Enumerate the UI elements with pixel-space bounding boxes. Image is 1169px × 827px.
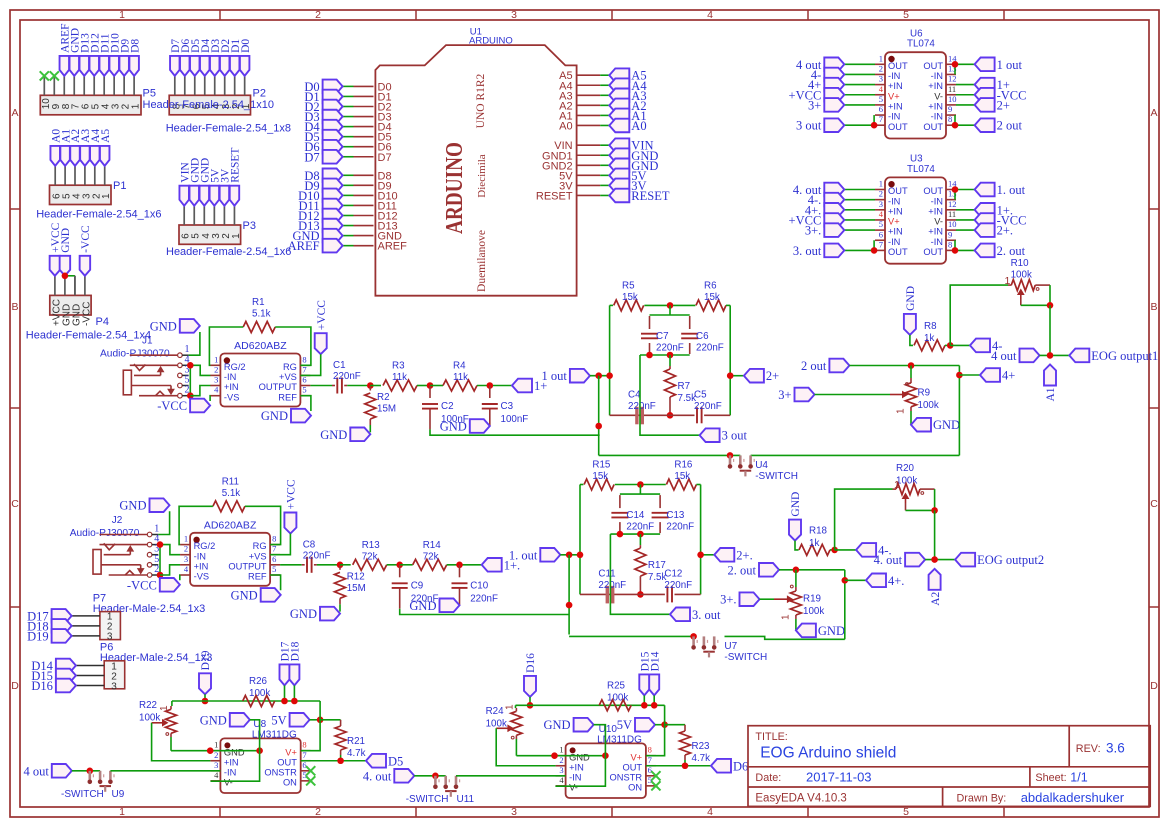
- net flag +VCC (AD620 +VS): [315, 333, 327, 354]
- wire MFB left vertical (R15): [579, 485, 581, 595]
- in-amp AD620ABZ (J1 channel): [220, 354, 300, 407]
- wire jack pin4-pin2 vertical: [159, 545, 161, 575]
- junction node after C1: [367, 382, 374, 389]
- net flag 3 out (U6 left): [844, 124, 875, 126]
- svg-text:OUTPUT: OUTPUT: [259, 382, 298, 392]
- no-connect X U10 ONSTR: [651, 771, 660, 780]
- svg-text:GND: GND: [818, 624, 845, 638]
- svg-text:2017-11-03: 2017-11-03: [806, 770, 872, 785]
- wire node to 4-. flag: [835, 549, 857, 551]
- pin 4 of AD620 a: [210, 395, 220, 397]
- svg-text:GND: GND: [150, 319, 177, 333]
- no-connect X pin9: [50, 71, 59, 80]
- capacitor C12 220nF: [666, 586, 668, 602]
- pin 4 of U10: [556, 785, 566, 787]
- resistor R14 72k: [400, 564, 413, 566]
- net flag VIN (P3): [179, 186, 189, 206]
- svg-text:OUT: OUT: [888, 247, 908, 257]
- wire R12 to GND: [339, 604, 341, 611]
- pin 6 of U8: [301, 770, 311, 772]
- wire C2 bottom rail: [430, 429, 600, 435]
- wire input to MFB: [590, 375, 610, 377]
- svg-text:LM311DG: LM311DG: [252, 730, 297, 741]
- pin VIN of U1 with net flag VIN: [577, 144, 601, 146]
- junction D14: [651, 702, 658, 709]
- net flag +VCC (U3 left): [844, 219, 875, 221]
- junction 4+. tap: [842, 577, 849, 584]
- net flag -VCC (P4 pin4): [80, 256, 91, 276]
- wire cap top bar: [639, 485, 641, 495]
- svg-text:7: 7: [879, 239, 883, 249]
- svg-text:A2: A2: [930, 591, 942, 605]
- junction R21/OUT: [337, 757, 344, 764]
- wire R24 wiper to +IN: [496, 728, 555, 765]
- svg-text:V-: V-: [934, 217, 943, 227]
- svg-text:R11: R11: [222, 476, 239, 487]
- capacitor C7 220nF: [649, 316, 651, 329]
- resistor R23 4.7k: [684, 725, 686, 731]
- pin 4 of J1: [178, 363, 183, 368]
- svg-text:A0: A0: [631, 119, 646, 133]
- svg-text:2+: 2+: [997, 98, 1010, 112]
- junction U3 pin14: [952, 186, 959, 193]
- pin 13 of U3: [946, 199, 956, 201]
- pin 1 of AD620 a: [210, 364, 220, 366]
- wire U3 pin9-pin8 loop: [954, 240, 956, 250]
- wire to 4+ flag: [959, 374, 980, 376]
- svg-text:D0: D0: [240, 39, 252, 53]
- junction jack pin2: [157, 572, 164, 579]
- capacitor C5 220nF: [696, 407, 698, 423]
- capacitor C13 220nF: [659, 495, 661, 508]
- net flag 3+. (U3 left): [844, 229, 875, 231]
- svg-text:+VCC: +VCC: [286, 479, 298, 509]
- svg-text:ONSTR: ONSTR: [610, 772, 643, 782]
- net flag 2. out: [759, 563, 779, 577]
- net flag 4-: [970, 339, 990, 353]
- svg-text:+IN: +IN: [194, 561, 209, 571]
- svg-text:OUT: OUT: [888, 61, 908, 71]
- svg-text:V+: V+: [888, 91, 900, 101]
- svg-text:-IN: -IN: [931, 196, 943, 206]
- wire -VS to -VCC: [179, 575, 181, 580]
- svg-text:15k: 15k: [704, 292, 720, 303]
- svg-text:4 out: 4 out: [23, 764, 49, 778]
- wire cap bottom bar: [640, 354, 690, 356]
- wire jack pin2 to +IN: [160, 565, 180, 575]
- net flag D15: [639, 674, 649, 695]
- wire 5V to R21: [320, 719, 341, 721]
- pin 2 of AD620 b: [180, 554, 190, 556]
- pin 6 of AD620 a: [300, 385, 310, 387]
- capacitor C3 100nF: [489, 386, 491, 399]
- pin 3 of U6: [875, 84, 885, 86]
- junction R19 top: [793, 567, 800, 574]
- net flag A2 (P1): [70, 146, 80, 166]
- pin 7 of U8: [301, 760, 311, 762]
- svg-text:5: 5: [879, 219, 883, 229]
- junction R8/R10 node: [947, 342, 954, 349]
- svg-text:-SWITCH: -SWITCH: [724, 652, 767, 663]
- svg-text:TL074: TL074: [907, 164, 935, 175]
- net flag 3. out (U3 left): [844, 249, 875, 251]
- svg-text:1: 1: [184, 534, 188, 544]
- svg-text:+IN: +IN: [888, 206, 903, 216]
- svg-text:5: 5: [879, 94, 883, 104]
- wire D16 to rail: [529, 697, 531, 705]
- net flag GND (R8): [904, 314, 916, 335]
- svg-text:GND: GND: [409, 599, 436, 613]
- junction D16: [527, 702, 534, 709]
- pin 5 of U10: [646, 785, 656, 787]
- wire MFB right vertical: [726, 304, 730, 306]
- svg-text:Header-Female-2.54_1x8: Header-Female-2.54_1x8: [166, 123, 291, 135]
- svg-text:2: 2: [315, 9, 321, 21]
- junction U3 pin7: [871, 247, 878, 254]
- capacitor C6 220nF: [689, 316, 691, 329]
- connector P1 Header-Female-2.54_1x6: [50, 185, 112, 204]
- wire rail down to V+ (U10): [646, 705, 665, 755]
- svg-text:Audio-PJ30070: Audio-PJ30070: [100, 349, 170, 360]
- net flag 4+: [980, 368, 1000, 382]
- wire GND flag down through U10: [555, 725, 605, 786]
- pin 3 of AD620 b: [180, 564, 190, 566]
- resistor R17 7.5k: [639, 534, 641, 545]
- wire R11 left leg to pin1: [179, 506, 213, 544]
- net flag 4 out (U9 input): [52, 764, 72, 778]
- svg-text:A: A: [1150, 107, 1157, 119]
- wire C8 to node: [317, 564, 340, 566]
- junction P4 GND: [62, 273, 69, 280]
- svg-text:6: 6: [879, 229, 883, 239]
- junction U3 pin8: [952, 247, 959, 254]
- svg-text:D18: D18: [290, 641, 302, 661]
- wire switch rail row B left: [599, 454, 741, 456]
- svg-text:2+.: 2+.: [997, 224, 1013, 238]
- svg-text:C12: C12: [664, 569, 682, 580]
- junction MFB bottom middle: [637, 591, 644, 598]
- svg-text:C9: C9: [411, 580, 424, 591]
- svg-text:+IN: +IN: [888, 81, 903, 91]
- svg-text:-IN: -IN: [931, 71, 943, 81]
- resistor R15 15k: [580, 484, 583, 486]
- pin 1 of U3: [875, 189, 885, 191]
- net flag 4+ (U6 left): [844, 84, 875, 86]
- svg-text:GND: GND: [60, 228, 72, 253]
- capacitor C9 220nF: [399, 565, 401, 578]
- pin 5V of U1 with net flag 5V: [577, 174, 601, 176]
- svg-text:+VCC: +VCC: [316, 300, 328, 330]
- svg-text:-IN: -IN: [931, 237, 943, 247]
- junction cap bottom middle: [667, 352, 674, 359]
- svg-text:R20: R20: [896, 463, 915, 474]
- junction MFB bottom middle: [667, 412, 674, 419]
- svg-text:R13: R13: [362, 540, 381, 551]
- wire node to 4- flag: [950, 344, 970, 346]
- pin 5 of AD620 b: [270, 574, 280, 576]
- net flag GND (P4 pin2): [60, 256, 71, 276]
- junction EOG output2 node: [931, 556, 938, 563]
- svg-text:R4: R4: [453, 361, 466, 372]
- svg-text:Header-Female-2.54_1x10: Header-Female-2.54_1x10: [143, 99, 274, 111]
- resistor R7 7.5k: [669, 355, 671, 366]
- pin 7 of AD620 a: [300, 374, 310, 376]
- junction MFB top: [637, 481, 644, 488]
- svg-text:3: 3: [111, 681, 117, 692]
- wire GND jog to P4 pin3: [65, 275, 75, 277]
- net flag A0 (P1): [50, 146, 60, 166]
- svg-text:5: 5: [272, 564, 276, 574]
- net flag AREF (P5 pin 8): [60, 56, 70, 76]
- svg-text:2: 2: [184, 544, 188, 554]
- svg-text:R25: R25: [607, 681, 626, 692]
- wire R9 bottom to GND: [910, 411, 912, 425]
- svg-text:4+: 4+: [1002, 369, 1015, 383]
- pin D2 of U1 with net flag D2: [354, 106, 374, 108]
- comparator U10 LM311DG: [566, 743, 646, 798]
- svg-text:EasyEDA V4.10.3: EasyEDA V4.10.3: [755, 793, 846, 805]
- wire to 3 out flag: [640, 355, 700, 435]
- net flag 1+. (U3 right): [956, 209, 975, 211]
- wire 5V node (U10): [655, 724, 665, 726]
- net flag D6: [711, 759, 731, 773]
- svg-text:Header-Female-2.54_1x6: Header-Female-2.54_1x6: [36, 209, 161, 221]
- svg-text:4: 4: [707, 9, 713, 21]
- pin D9 of U1 with net flag D9: [354, 184, 374, 186]
- svg-text:B: B: [11, 301, 18, 313]
- pin 2 of AD620 a: [210, 374, 220, 376]
- svg-text:2. out: 2. out: [997, 244, 1026, 258]
- pin 10 of U3: [946, 229, 956, 231]
- net flag -VCC (U3 right): [956, 219, 975, 221]
- svg-text:AD620ABZ: AD620ABZ: [234, 340, 287, 352]
- junction jack pin2: [187, 392, 194, 399]
- svg-text:Header-Female-2.54_1x6: Header-Female-2.54_1x6: [166, 246, 291, 258]
- wire to 3. out flag: [610, 534, 670, 614]
- svg-text:R1: R1: [252, 297, 265, 308]
- svg-text:U4: U4: [755, 460, 768, 471]
- svg-text:3: 3: [511, 806, 517, 818]
- pin D11 of U1 with net flag D11: [354, 204, 374, 206]
- wire R8 to node: [945, 344, 950, 346]
- net flag 4+.: [866, 574, 886, 588]
- net flag 2+ (filter output): [730, 375, 744, 377]
- wire jack pin2 to +IN: [190, 386, 210, 396]
- svg-text:GND: GND: [905, 286, 917, 311]
- net flag 2 out (U6 right): [956, 124, 975, 126]
- svg-text:8: 8: [302, 740, 306, 750]
- svg-text:C10: C10: [470, 580, 489, 591]
- net flag GND (R19): [796, 624, 816, 638]
- svg-text:11: 11: [948, 209, 956, 219]
- junction GND inside (U10): [602, 752, 609, 759]
- svg-text:4 out: 4 out: [991, 349, 1017, 363]
- svg-text:R23: R23: [692, 741, 711, 752]
- svg-text:C7: C7: [656, 331, 669, 342]
- wiper arrow R22: [152, 722, 166, 724]
- svg-text:-VS: -VS: [194, 572, 210, 582]
- svg-text:4.7k: 4.7k: [347, 748, 366, 759]
- wiper arrow R24: [496, 727, 511, 729]
- svg-text:R2: R2: [377, 392, 390, 403]
- pin 2 of P6 / net flag D15: [76, 675, 104, 677]
- svg-text:D8: D8: [129, 39, 141, 53]
- junction R18/R20 node: [831, 547, 838, 554]
- svg-text:RESET: RESET: [631, 189, 670, 203]
- junction input node A: [595, 372, 602, 379]
- no-connect X U8 ON: [306, 776, 315, 785]
- net flag 3+ (R9 wiper): [795, 388, 815, 402]
- svg-text:R16: R16: [674, 460, 693, 471]
- wire switch rail row B right: [751, 454, 960, 456]
- pin A4 of U1 with net flag A4: [577, 84, 601, 86]
- svg-text:V+: V+: [888, 217, 900, 227]
- net flag 1. out (U3 right): [956, 189, 975, 191]
- wire between series resistors: [417, 385, 430, 387]
- svg-text:8: 8: [948, 114, 952, 124]
- junction D18: [291, 698, 298, 705]
- pin D10 of U1 with net flag D10: [354, 194, 374, 196]
- pin 1 of U10: [556, 755, 566, 757]
- net flag 3+ (U6 left): [844, 104, 875, 106]
- net flag GND (U10): [574, 718, 594, 732]
- capacitor C2 100nF: [429, 386, 431, 399]
- pin 1 of P6 / net flag D14: [76, 665, 104, 667]
- net flag A1 (P1): [60, 146, 70, 166]
- svg-text:U9: U9: [112, 789, 125, 800]
- svg-text:1: 1: [231, 233, 242, 239]
- net flag 4. out: [905, 553, 925, 567]
- svg-text:RESET: RESET: [230, 148, 242, 183]
- pin 3 of U10: [556, 775, 566, 777]
- svg-text:U7: U7: [724, 641, 737, 652]
- svg-text:10: 10: [948, 219, 957, 229]
- svg-text:220nF: 220nF: [666, 522, 694, 533]
- connector P5 Header-Female-2.54_1x10: [40, 95, 141, 115]
- svg-text:-VCC: -VCC: [81, 302, 92, 326]
- net flag 1+ (U6 right): [956, 84, 975, 86]
- pin D3 of U1 with net flag D3: [354, 116, 374, 118]
- svg-text:2+.: 2+.: [736, 548, 752, 562]
- wire 2. out across: [779, 569, 845, 571]
- junction D17: [281, 698, 288, 705]
- net flag 3+. (R19 wiper): [740, 592, 760, 606]
- svg-text:R21: R21: [347, 736, 365, 747]
- wire U8 OUT to D5: [301, 760, 366, 762]
- svg-text:GND: GND: [569, 752, 590, 762]
- svg-text:5: 5: [903, 9, 909, 21]
- svg-text:R22: R22: [139, 700, 157, 711]
- wire jack pin1 to GND: [158, 511, 169, 534]
- wire to 4+. flag: [845, 579, 866, 581]
- net flag GND (J1 pin1): [180, 319, 200, 333]
- wire D17 to rail: [284, 685, 286, 701]
- net flag GND (J2 pin1): [150, 498, 170, 512]
- pin 3 of AD620 a: [210, 385, 220, 387]
- svg-text:-VCC: -VCC: [80, 225, 92, 253]
- pin 2 of J2: [147, 573, 152, 578]
- svg-text:1: 1: [896, 408, 907, 414]
- junction 4+ tap: [956, 372, 963, 379]
- svg-text:TL074: TL074: [907, 39, 935, 50]
- svg-text:10: 10: [948, 94, 957, 104]
- wire node up to R10: [950, 285, 1008, 345]
- svg-text:8: 8: [948, 239, 952, 249]
- svg-text:OUT: OUT: [923, 61, 943, 71]
- svg-text:1: 1: [781, 614, 792, 620]
- pin 3 of J1: [178, 373, 183, 378]
- svg-text:D7: D7: [378, 152, 392, 164]
- pin 8 of AD620 a: [300, 364, 310, 366]
- junction U7 switch: [690, 633, 697, 640]
- wire U6 pin6-pin7 loop: [873, 115, 875, 125]
- svg-text:ARDUINO: ARDUINO: [469, 36, 513, 47]
- svg-text:OUT: OUT: [622, 762, 642, 772]
- pin 9 of U6: [946, 114, 956, 116]
- wire input down to switch rail: [568, 555, 570, 635]
- svg-text:1 out: 1 out: [997, 58, 1023, 72]
- net flag D13 (P5 pin 6): [80, 56, 90, 76]
- net flag D10 (P5 pin 3): [109, 56, 119, 76]
- svg-text:3: 3: [559, 765, 563, 775]
- net flag GND (P3): [190, 186, 200, 206]
- pin 5 of U6: [875, 104, 885, 106]
- wiper arrow R9: [890, 394, 906, 396]
- svg-text:Header-Female-2.54_1x4: Header-Female-2.54_1x4: [26, 330, 151, 342]
- svg-text:C: C: [1150, 498, 1158, 510]
- svg-text:4. out: 4. out: [363, 769, 392, 783]
- svg-text:-IN: -IN: [569, 772, 581, 782]
- svg-text:GND: GND: [933, 418, 960, 432]
- pin D8 of U1 with net flag D8: [354, 174, 374, 176]
- junction U6 pin7: [871, 122, 878, 129]
- svg-text:-VCC: -VCC: [157, 399, 187, 413]
- svg-text:220nF: 220nF: [664, 580, 692, 591]
- switch U9 -SWITCH: [89, 771, 92, 780]
- wire input to MFB: [560, 554, 580, 556]
- svg-text:R14: R14: [423, 540, 442, 551]
- pin 2 of U6: [875, 73, 885, 75]
- svg-text:3.6: 3.6: [1106, 741, 1125, 756]
- switch U7 -SWITCH: [692, 636, 695, 645]
- pin D1 of U1 with net flag D1: [354, 95, 374, 97]
- junction between series resistors: [396, 562, 403, 569]
- wire MFB bottom rail: [610, 414, 695, 416]
- junction MFB top: [667, 302, 674, 309]
- svg-text:D19: D19: [27, 629, 49, 643]
- wire 2. out drop to rail: [844, 570, 846, 640]
- wire R10 right leg down: [1049, 285, 1051, 305]
- svg-text:R12: R12: [347, 571, 365, 582]
- wire R19 bottom to GND: [795, 619, 797, 630]
- wire R11 right leg to pin8: [245, 506, 281, 544]
- wire +VCC to pin7: [270, 534, 290, 555]
- svg-text:1: 1: [214, 354, 218, 364]
- svg-text:R7: R7: [678, 381, 691, 392]
- svg-text:C5: C5: [694, 390, 707, 401]
- net flag 1 out (U6 right): [956, 63, 975, 65]
- svg-text:-SWITCH: -SWITCH: [406, 794, 449, 805]
- svg-text:1/1: 1/1: [1070, 771, 1087, 785]
- svg-text:+VS: +VS: [249, 551, 267, 561]
- wire U6 pin9-pin8 loop: [954, 115, 956, 125]
- pin 2 of P7 / net flag D18: [72, 625, 100, 627]
- svg-text:-SWITCH: -SWITCH: [755, 471, 798, 482]
- net flag 5V (P3): [210, 186, 220, 206]
- svg-text:OUT: OUT: [923, 186, 943, 196]
- pin 8 of U8: [301, 750, 311, 752]
- junction 5V (U8): [317, 717, 324, 724]
